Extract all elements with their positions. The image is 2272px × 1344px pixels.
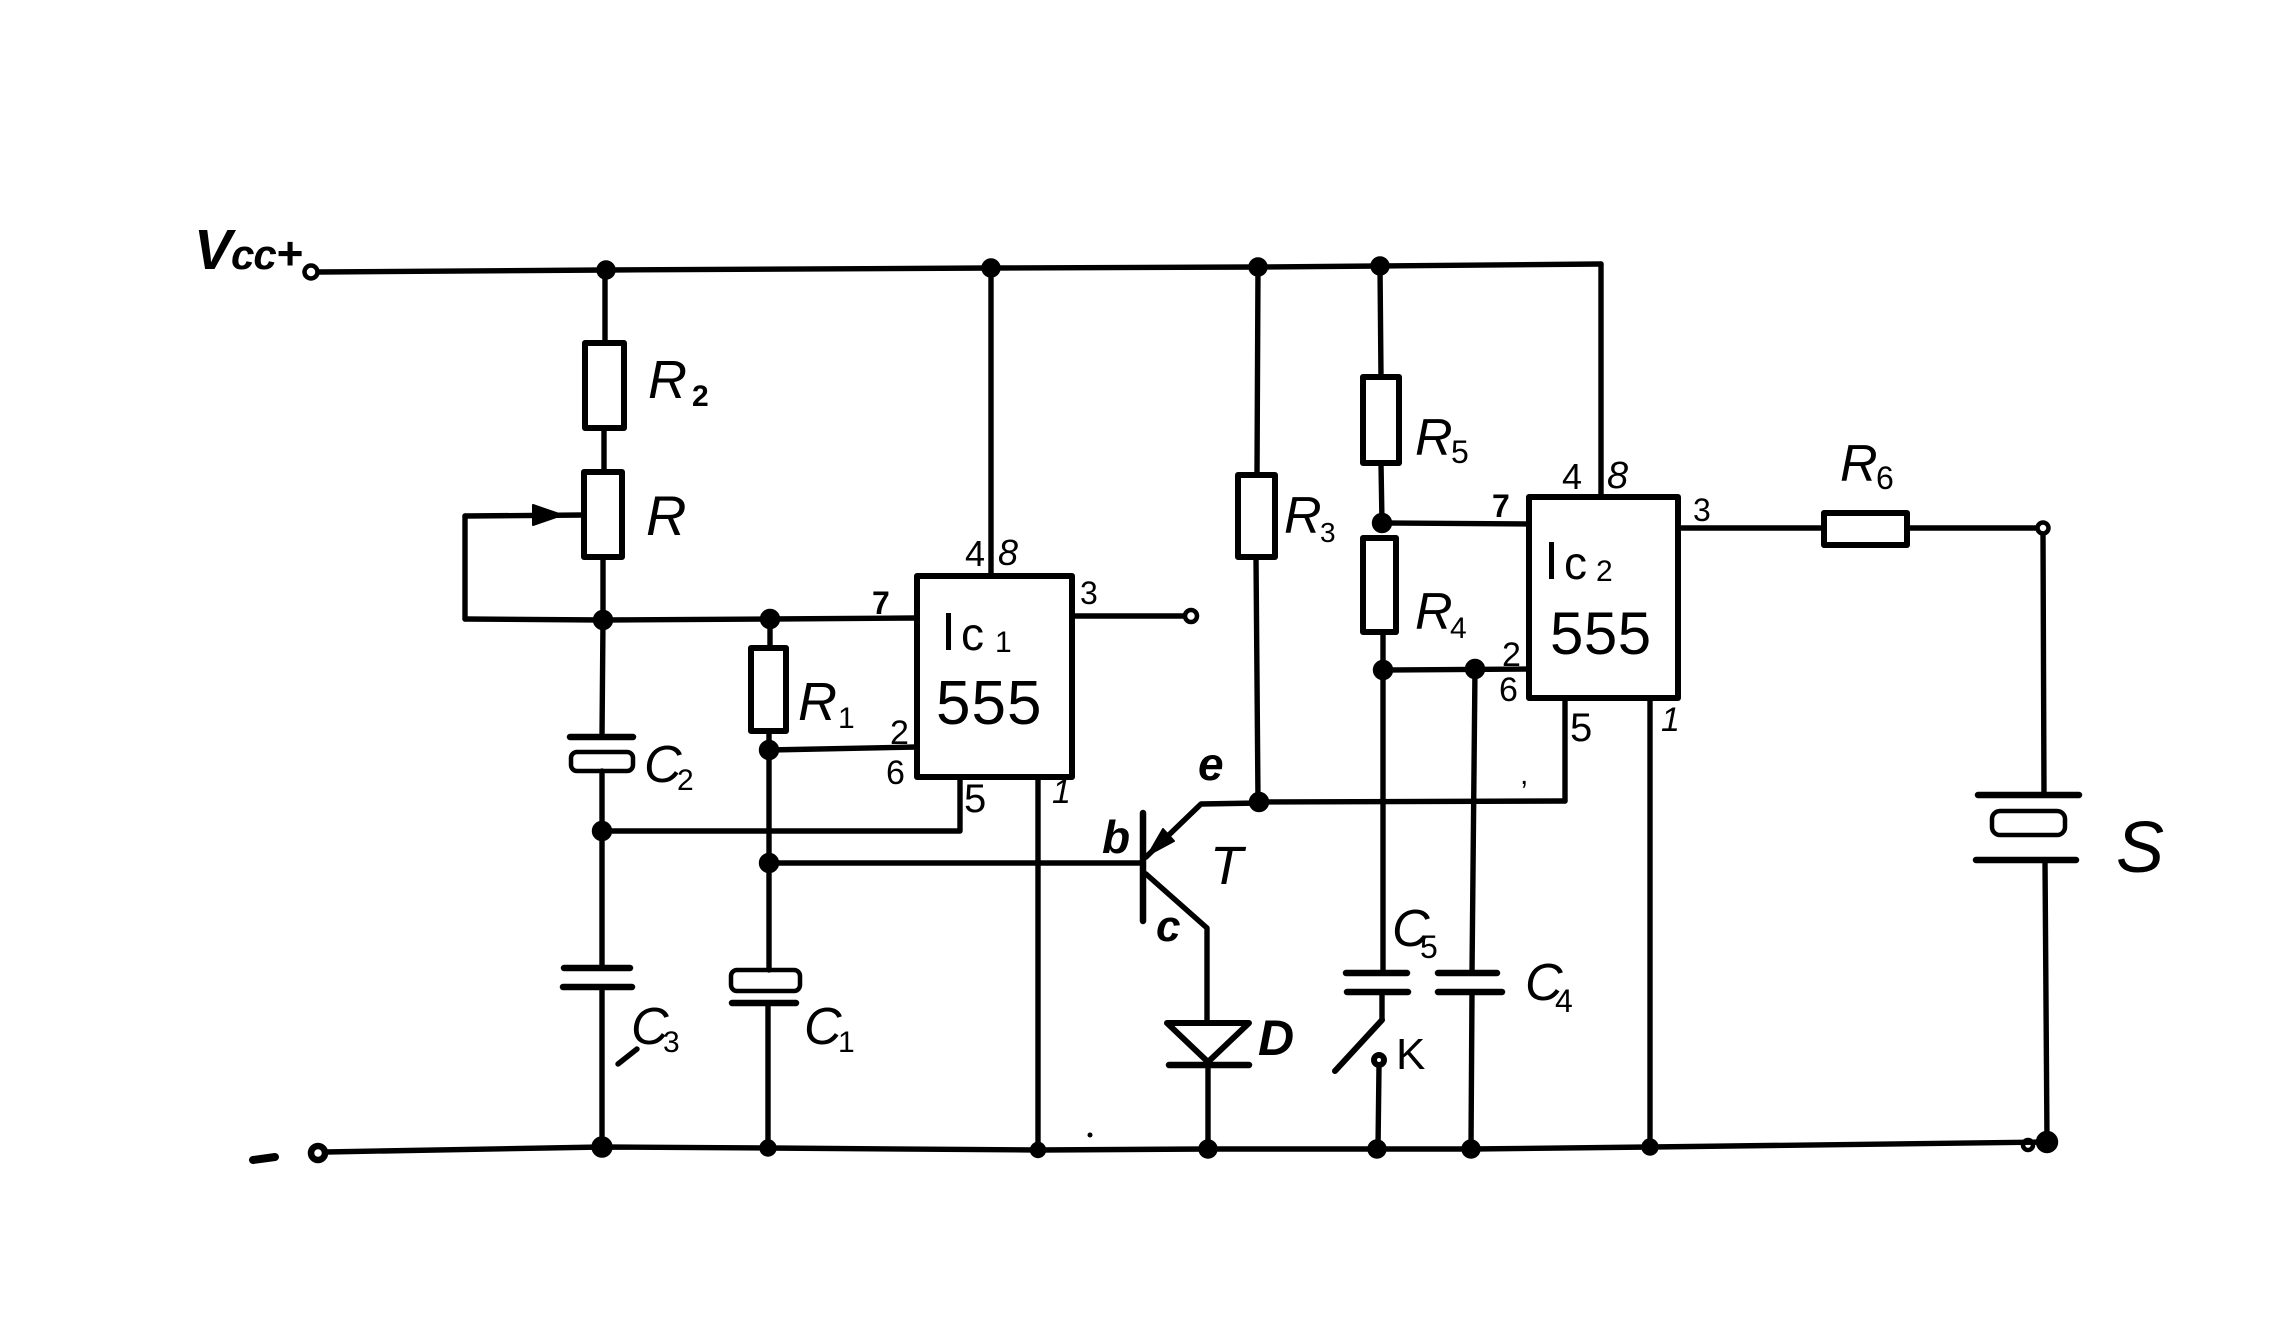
node R1-pin2 junction <box>762 743 777 758</box>
svg-text:K: K <box>1396 1030 1425 1079</box>
svg-text:8: 8 <box>998 532 1018 573</box>
svg-text:8: 8 <box>1607 455 1628 497</box>
capacitor C2 <box>570 736 694 797</box>
wire e-line to IC2 pin5 <box>1259 801 1565 802</box>
svg-text:555: 555 <box>936 669 1042 738</box>
svg-text:R: R <box>1840 435 1878 493</box>
svg-text:c: c <box>961 608 984 660</box>
svg-text:6: 6 <box>1876 460 1894 496</box>
svg-text:R: R <box>646 484 686 547</box>
node rail-K <box>1370 1142 1384 1156</box>
node rail-IC1 pin8 <box>984 261 998 275</box>
wire R1 bottom lead <box>766 731 771 750</box>
wire R2 top lead <box>602 270 607 343</box>
wire R3 bottom lead <box>1256 557 1258 801</box>
capacitor C4 <box>1438 954 1573 1019</box>
minus terminal label <box>253 1157 275 1160</box>
wire C2 top lead <box>602 620 603 737</box>
wire R bottom lead <box>600 557 605 620</box>
node base junction <box>762 856 777 871</box>
wire C5 column <box>1380 670 1385 973</box>
svg-text:7: 7 <box>872 585 890 621</box>
svg-text:R: R <box>798 672 837 732</box>
svg-text:e: e <box>1198 738 1224 790</box>
svg-text:S: S <box>2116 808 2164 888</box>
svg-text:5: 5 <box>964 777 986 821</box>
wire output down to S <box>2043 534 2044 795</box>
svg-text:2: 2 <box>692 380 709 413</box>
node R1 top junction <box>763 612 778 627</box>
transistor emitter with arrow <box>1146 803 1259 857</box>
svg-text:3: 3 <box>1693 492 1711 528</box>
ground terminal <box>311 1146 325 1160</box>
output terminal circle <box>2038 523 2049 534</box>
op-amp U2 IC2 555 box <box>1529 497 1678 698</box>
svg-text:2: 2 <box>677 764 694 797</box>
svg-text:1: 1 <box>1661 701 1680 739</box>
wire R5-R4 link <box>1381 463 1382 523</box>
wire R3 top lead <box>1257 267 1258 475</box>
capacitor C1 <box>731 970 855 1059</box>
node rail-R3 <box>1251 260 1265 274</box>
svg-text:1: 1 <box>838 1026 855 1059</box>
wire C1 bottom lead <box>765 1003 770 1149</box>
svg-text:5: 5 <box>1420 929 1438 965</box>
svg-text:4: 4 <box>1450 612 1467 645</box>
svg-text:c: c <box>1156 902 1180 951</box>
svg-text:I: I <box>1544 531 1559 591</box>
wire R6 to output terminal <box>1907 525 2037 530</box>
svg-text:2: 2 <box>890 714 909 752</box>
node emitter junction <box>1252 795 1267 810</box>
svg-text:2: 2 <box>1502 636 1521 674</box>
wire R2-R link <box>601 428 606 472</box>
svg-text:R: R <box>648 350 687 410</box>
wire C4 column <box>1472 669 1475 973</box>
node rail-IC2 pin1 <box>1644 1141 1656 1153</box>
transistor Q1 T base bar <box>1140 813 1147 921</box>
capacitor C5 <box>1346 900 1438 992</box>
node rail-D <box>1201 1142 1215 1156</box>
node rail-C3 <box>594 1139 610 1155</box>
wire IC1 pin 4/8 <box>988 268 993 576</box>
potentiometer R <box>584 472 686 557</box>
svg-text:D: D <box>1258 1010 1294 1066</box>
wire IC2 pin 4/8 <box>1598 264 1603 497</box>
svg-text:R: R <box>1415 583 1453 641</box>
svg-text:,: , <box>1520 758 1528 791</box>
svg-text:2: 2 <box>1596 555 1613 588</box>
node R-C2 junction <box>596 613 611 628</box>
svg-text:1: 1 <box>1052 773 1071 811</box>
svg-text:7: 7 <box>1492 488 1510 524</box>
wire S bottom to rail <box>2045 860 2047 1142</box>
wire bottom rail <box>326 1142 2047 1152</box>
node rail-R5 <box>1373 259 1387 273</box>
wiper arrow of R <box>465 505 584 525</box>
node rail-IC1 pin1 <box>1033 1145 1044 1156</box>
wire C4 bottom lead <box>1471 992 1472 1149</box>
wire C2 bottom lead <box>599 771 604 831</box>
Vcc terminal <box>305 266 318 279</box>
svg-text:I: I <box>941 602 956 662</box>
wire wiper feedback <box>462 516 467 619</box>
resistor R3 <box>1238 475 1336 557</box>
resistor R6 <box>1824 435 1907 545</box>
wire C3 bottom lead <box>599 987 604 1147</box>
svg-text:3: 3 <box>1320 517 1336 548</box>
node R5-R4 junction <box>1375 516 1390 531</box>
wire K to rail <box>1378 1066 1379 1149</box>
wire transistor base line <box>769 860 1141 865</box>
stray dot <box>1088 1133 1093 1138</box>
svg-text:6: 6 <box>1499 671 1518 709</box>
svg-text:T: T <box>1210 836 1247 896</box>
svg-text:555: 555 <box>1550 600 1652 667</box>
svg-text:4: 4 <box>965 533 985 574</box>
svg-text:c: c <box>1564 537 1587 589</box>
svg-text:5: 5 <box>1570 706 1592 750</box>
node rail-C1 <box>762 1142 774 1154</box>
wire R4 bottom lead <box>1380 632 1385 670</box>
svg-text:1: 1 <box>838 702 855 735</box>
svg-text:b: b <box>1102 811 1130 863</box>
switch K <box>1335 992 1425 1079</box>
node R4-C5 junction <box>1376 663 1391 678</box>
wire IC2 pin 5 <box>1562 698 1567 801</box>
diode D <box>1167 1010 1294 1066</box>
svg-text:5: 5 <box>1451 434 1469 470</box>
node C2-C3 junction <box>595 824 610 839</box>
transistor collector <box>1146 874 1207 1023</box>
svg-text:R: R <box>1284 487 1322 545</box>
wire IC1 pin 3 output <box>1072 613 1184 618</box>
IC1 output terminal <box>1185 610 1197 622</box>
node rail-C4 <box>1464 1142 1478 1156</box>
wire C3 top lead <box>599 831 604 968</box>
wire top Vcc rail <box>318 264 1601 272</box>
wire D cathode to rail <box>1205 1065 1210 1149</box>
svg-text:4: 4 <box>1562 456 1582 497</box>
svg-text:Vcc+: Vcc+ <box>194 218 302 282</box>
wire to IC2 pin 2/6 <box>1383 669 1529 670</box>
wire to IC1 pin 5 <box>602 777 960 831</box>
buzzer S <box>1976 795 2164 888</box>
wire down to C1 <box>766 863 771 970</box>
wire IC2 pin 1 to rail <box>1647 698 1652 1147</box>
node rail-R2 <box>599 263 613 277</box>
svg-text:3: 3 <box>1080 575 1098 611</box>
svg-text:1: 1 <box>995 626 1012 659</box>
svg-text:3: 3 <box>663 1026 680 1059</box>
wire node line to pin7 <box>465 618 917 620</box>
wire IC1 pin 1 to rail <box>1035 777 1040 1150</box>
wire R1 node down to base node <box>766 750 771 863</box>
wire to IC2 pin 7 <box>1382 523 1529 524</box>
svg-text:4: 4 <box>1555 983 1573 1019</box>
node C4 top junction <box>1468 662 1483 677</box>
resistor R4 <box>1363 538 1467 645</box>
wire R1 top lead <box>767 619 772 648</box>
resistor R5 <box>1363 377 1469 470</box>
wire R5 top lead <box>1380 266 1381 377</box>
svg-text:6: 6 <box>886 754 905 792</box>
resistor R2 <box>585 343 709 428</box>
svg-text:C: C <box>804 998 842 1056</box>
wire IC2 pin 3 to R6 <box>1678 525 1824 530</box>
wire to IC1 pin 2/6 <box>769 747 917 750</box>
capacitor C3 <box>563 968 680 1064</box>
bottom right open terminal <box>2023 1140 2033 1150</box>
op-amp U1 IC1 555 box <box>917 576 1072 777</box>
resistor R1 <box>751 648 855 735</box>
node rail-S <box>2039 1134 2056 1151</box>
svg-text:R: R <box>1415 409 1453 467</box>
